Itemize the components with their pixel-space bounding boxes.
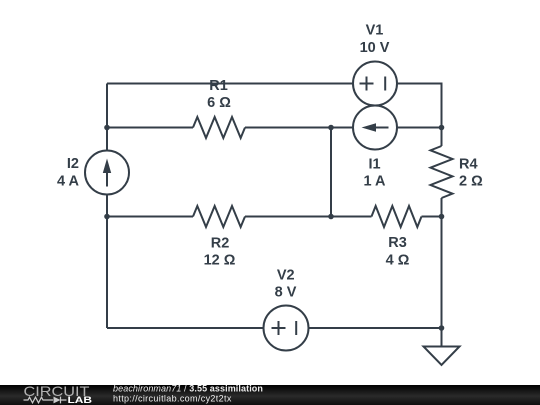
footer logo diode triangle	[54, 397, 61, 404]
svg-text:8 V: 8 V	[275, 284, 297, 300]
wire bottom right segment V2 to node G	[309, 327, 442, 329]
svg-text:12 Ω: 12 Ω	[204, 253, 236, 269]
V2 plus sign	[272, 321, 286, 335]
svg-text:V1: V1	[366, 23, 384, 39]
wire bottom left segment to V2	[107, 327, 264, 329]
wire top from node A to V1 left	[107, 83, 353, 85]
svg-text:LAB: LAB	[68, 395, 93, 405]
wire R4 bottom stub	[441, 198, 443, 217]
current source I1	[353, 106, 397, 150]
svg-text:http://circuitlab.com/cy2t2tx: http://circuitlab.com/cy2t2tx	[113, 394, 232, 404]
ground symbol	[424, 328, 460, 365]
V1 plus sign	[360, 77, 374, 91]
wire V1 right to top-right corner down to I1-R4 node	[397, 84, 442, 128]
I2 arrow head	[103, 159, 111, 174]
I2 arrow shaft	[106, 171, 108, 187]
footer logo resistor-diode line	[24, 397, 67, 404]
svg-text:beachironman71 / 3.55 assimila: beachironman71 / 3.55 assimilation	[113, 384, 263, 394]
svg-text:1 A: 1 A	[363, 174, 386, 190]
wire R2 right to node E	[245, 216, 331, 218]
wire R3 right to node F	[422, 216, 442, 218]
wire I1 right to node C	[397, 127, 442, 129]
resistor R4	[431, 146, 453, 198]
wire right vertical node F to bottom node G	[441, 217, 443, 329]
svg-text:I2: I2	[67, 156, 79, 172]
svg-text:4 Ω: 4 Ω	[386, 253, 410, 269]
wire vertical node D to node E	[330, 128, 332, 217]
wire R3 left	[331, 216, 372, 218]
svg-text:2 Ω: 2 Ω	[459, 174, 483, 190]
I1 arrow	[375, 127, 389, 129]
wire R1 left from node B to resistor	[107, 127, 193, 129]
voltage source V2	[264, 306, 309, 351]
current source I2	[85, 151, 129, 195]
junction node F	[439, 214, 445, 220]
wire R4 top stub	[441, 128, 443, 147]
junction node B	[104, 125, 110, 131]
junction node D	[328, 125, 334, 131]
voltage source V1	[353, 62, 397, 106]
junction node C	[439, 125, 445, 131]
resistor R2	[193, 206, 245, 227]
svg-text:6 Ω: 6 Ω	[207, 95, 231, 111]
wire R1 right to I1 left	[245, 127, 353, 129]
junction node on left at R2 level	[104, 214, 110, 220]
svg-text:R2: R2	[211, 236, 230, 252]
svg-text:R3: R3	[388, 235, 407, 251]
wire R2 left	[107, 216, 193, 218]
wire left vertical from node A to I2 top	[106, 84, 108, 151]
junction node G	[439, 325, 445, 331]
wire I2 bottom to bottom-left corner	[106, 195, 108, 329]
junction node E	[328, 214, 334, 220]
svg-text:10 V: 10 V	[360, 40, 390, 56]
svg-text:4 A: 4 A	[57, 174, 80, 190]
footer bar	[0, 385, 540, 405]
resistor R3	[372, 206, 422, 227]
svg-text:R4: R4	[459, 157, 478, 173]
svg-text:V2: V2	[277, 268, 295, 284]
svg-text:R1: R1	[209, 78, 228, 94]
V2 minus bar	[295, 321, 297, 335]
V1 minus bar	[384, 77, 386, 91]
resistor R1	[193, 117, 245, 138]
I1 arrow head	[362, 123, 377, 131]
svg-text:I1: I1	[368, 157, 380, 173]
